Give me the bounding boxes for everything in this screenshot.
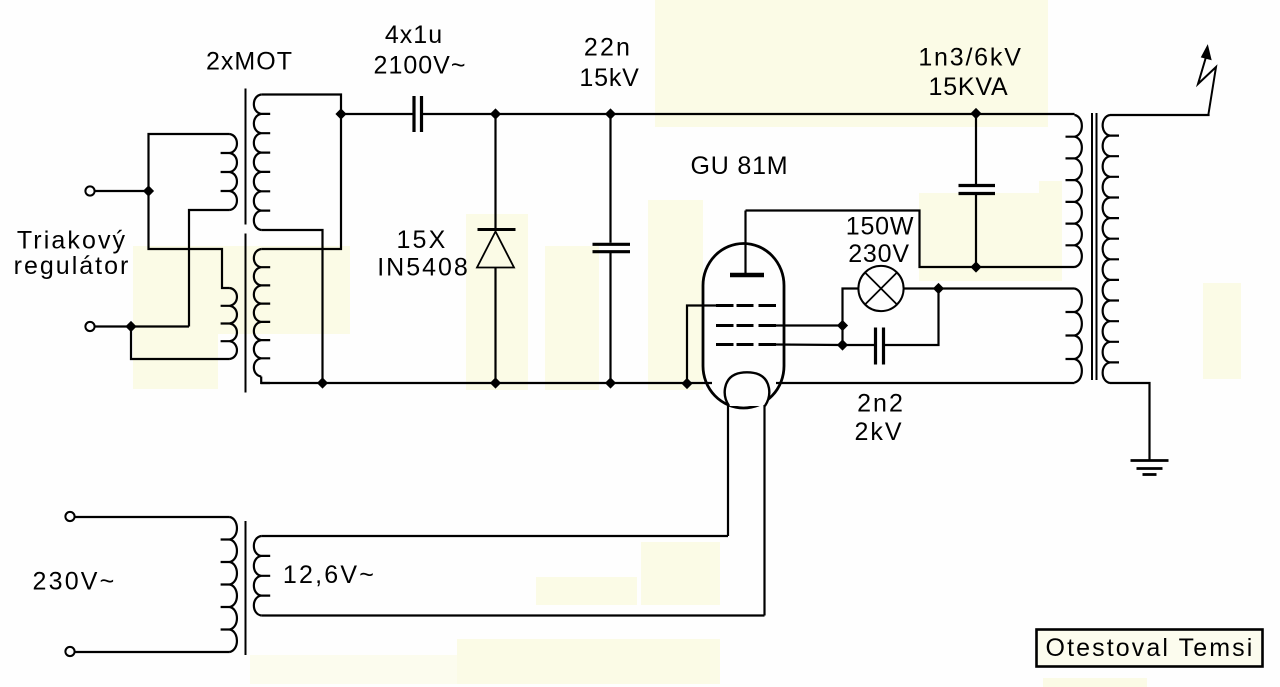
- svg-text:2100V~: 2100V~: [374, 51, 467, 79]
- wire anode to tank node: [746, 211, 1075, 268]
- node 22n top: [605, 108, 616, 119]
- bottom rail right segment (behind tube): [776, 382, 1075, 384]
- svg-text:4x1u: 4x1u: [385, 21, 443, 49]
- wire J2 down to MOT2 primary bottom: [131, 327, 230, 360]
- test box frame: [1037, 630, 1263, 667]
- svg-text:2xMOT: 2xMOT: [206, 48, 293, 76]
- terminal T2 (lower left input): [85, 322, 94, 331]
- svg-text:15kV: 15kV: [579, 64, 639, 92]
- wire filament left to heater transformer secondary top: [261, 535, 728, 537]
- wire node to HV transformer primary2 top: [939, 287, 1075, 289]
- capacitor C3 2n2 plates: [874, 328, 877, 365]
- svg-text:GU 81M: GU 81M: [691, 152, 789, 180]
- capacitor C4 1n3 plates: [959, 184, 996, 187]
- heater transformer core: [245, 521, 247, 655]
- highlight patches: [655, 0, 1048, 127]
- lamp X stroke 1: [865, 273, 897, 305]
- tube filament dome (omega, white fill erases envelope inside): [725, 372, 770, 406]
- node diode bottom: [490, 377, 501, 388]
- tube anode plate bar: [730, 273, 764, 278]
- wire J1 up to MOT1 primary top: [149, 134, 230, 191]
- wire 2n2 right plate to right bus: [885, 289, 939, 346]
- HV transformer primary winding 2: [1066, 289, 1082, 383]
- wire T2 to node: [95, 325, 131, 327]
- ground symbol: [1131, 459, 1169, 462]
- svg-text:12,6V~: 12,6V~: [283, 561, 376, 589]
- MOT1 core: [245, 89, 247, 225]
- wire T1 to node: [95, 190, 149, 192]
- node 22n bottom: [605, 377, 616, 388]
- node J2: [125, 321, 136, 332]
- capacitor C4 1n3/6kV wire top: [975, 114, 977, 184]
- wire MOT2 secondary bottom to bottom rail: [261, 377, 270, 384]
- terminal T4: [65, 647, 74, 656]
- svg-text:Otestoval Temsi: Otestoval Temsi: [1046, 634, 1255, 662]
- MOT2 secondary winding: [254, 249, 270, 377]
- HV transformer primary winding 1: [1066, 115, 1082, 267]
- terminal T3: [65, 512, 74, 521]
- svg-text:2kV: 2kV: [854, 418, 903, 446]
- node 1n3 top: [970, 108, 981, 119]
- capacitor C4 1n3 wire bottom: [975, 195, 977, 267]
- MOT1 primary winding: [221, 134, 237, 210]
- wire lamp right to node: [904, 287, 939, 289]
- svg-text:15X: 15X: [396, 226, 447, 254]
- svg-text:230V~: 230V~: [33, 568, 117, 596]
- top rail mid segment: [423, 113, 1075, 115]
- diode D1 cathode bar: [478, 228, 516, 231]
- svg-text:150W: 150W: [846, 213, 915, 241]
- node J1: [143, 185, 154, 196]
- filament right leg: [763, 405, 765, 616]
- node grid2 bus: [837, 320, 848, 331]
- spark arrowhead: [1202, 46, 1212, 60]
- wire lamp left to bus: [843, 289, 859, 346]
- node grid3 bus: [837, 339, 848, 350]
- bottom rail left segment: [261, 382, 712, 384]
- capacitor C1 4x1u plates: [412, 96, 415, 132]
- top rail left segment: [341, 113, 413, 115]
- node anode line: [970, 261, 981, 272]
- tube grid3 dashes: [716, 343, 734, 346]
- tube grid1 dashes: [716, 304, 734, 307]
- wire secondary top to spark output: [1110, 114, 1209, 115]
- node grid1 return: [681, 378, 692, 389]
- capacitor C2 22n plates: [593, 243, 631, 246]
- MOT2 primary winding: [221, 288, 237, 359]
- node diode top: [490, 108, 501, 119]
- wire MOT2 secondary top up to top-rail node: [261, 114, 341, 249]
- capacitor C2 22n wire top: [609, 114, 611, 243]
- wire MOT1 primary bottom to J2 line: [189, 210, 230, 327]
- svg-text:2n2: 2n2: [857, 390, 905, 418]
- heater transformer secondary winding: [254, 536, 270, 616]
- wire MOT1 secondary top to top rail: [261, 95, 341, 115]
- svg-text:1n3/6kV: 1n3/6kV: [918, 44, 1022, 72]
- tube GU 81M envelope: [703, 244, 784, 409]
- wire filament right to heater transformer secondary bottom: [261, 614, 764, 616]
- svg-text:regulátor: regulátor: [14, 252, 131, 280]
- svg-text:15KVA: 15KVA: [929, 73, 1009, 101]
- tube grid2 dashes: [716, 324, 734, 327]
- lamp X stroke 2: [865, 273, 897, 305]
- wire MOT1 secondary bottom down to bottom rail: [261, 230, 322, 383]
- wire J2 to MOT1 primary bottom line: [131, 325, 189, 327]
- svg-text:IN5408: IN5408: [377, 254, 470, 282]
- spark lightning arrow: [1198, 57, 1216, 115]
- diode D1 branch wire top: [494, 114, 496, 230]
- wire grid3 to cap bus: [776, 343, 843, 346]
- node secondary1 bottom: [317, 377, 328, 388]
- wire T4 to heater primary bottom: [75, 651, 230, 653]
- lamp L1 150W circle: [858, 266, 903, 311]
- tube anode lead: [744, 211, 746, 274]
- wire grid2 to lamp bus: [776, 324, 843, 326]
- wire grid1 left and down to bottom rail: [687, 306, 716, 384]
- diode D1 triangle: [477, 232, 514, 268]
- wire secondary bottom to ground: [1110, 383, 1150, 461]
- node top-rail / MOT secondary: [335, 108, 346, 119]
- HV transformer core: [1091, 113, 1093, 380]
- wire J1 down/right to MOT2 primary top (crossover): [149, 191, 230, 288]
- svg-text:22n: 22n: [584, 33, 632, 61]
- MOT1 secondary winding: [254, 95, 270, 231]
- filament left leg: [727, 405, 729, 536]
- diode D1 branch wire bottom: [494, 268, 496, 384]
- svg-text:Triakový: Triakový: [17, 227, 127, 255]
- capacitor C2 22n wire bottom: [609, 253, 611, 383]
- wire T3 to heater primary top: [75, 516, 230, 518]
- heater transformer primary winding: [221, 517, 237, 652]
- node lamp/2n2 right: [933, 283, 944, 294]
- svg-text:230V: 230V: [848, 240, 910, 268]
- HV transformer secondary winding: [1103, 115, 1119, 383]
- MOT2 core: [245, 234, 247, 393]
- terminal T1 (upper left input): [85, 186, 94, 195]
- wire bus to 2n2 left plate: [843, 344, 875, 346]
